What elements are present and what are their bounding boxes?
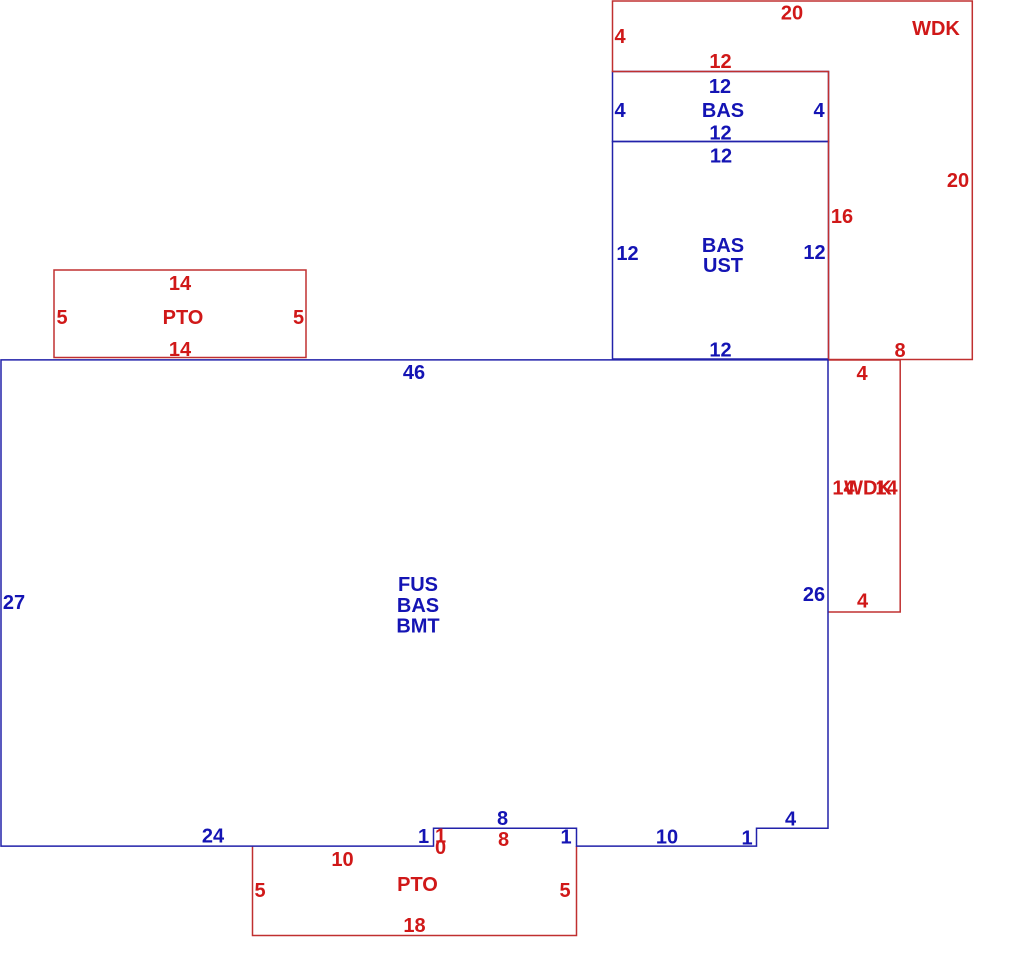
svg-text:0: 0 (435, 837, 446, 859)
svg-text:8: 8 (498, 829, 509, 851)
svg-text:1: 1 (741, 828, 752, 850)
svg-text:FUS: FUS (398, 574, 438, 596)
svg-text:8: 8 (894, 340, 905, 362)
svg-text:4: 4 (813, 100, 825, 122)
svg-text:18: 18 (403, 915, 425, 937)
svg-text:1: 1 (560, 827, 571, 849)
svg-text:PTO: PTO (163, 307, 204, 329)
svg-text:14: 14 (169, 273, 192, 295)
svg-text:14: 14 (875, 478, 898, 500)
svg-text:26: 26 (803, 584, 825, 606)
svg-text:PTO: PTO (397, 874, 438, 896)
svg-text:27: 27 (3, 592, 25, 614)
svg-text:8: 8 (497, 808, 508, 830)
svg-text:46: 46 (403, 362, 425, 384)
svg-text:12: 12 (803, 242, 825, 264)
svg-text:12: 12 (709, 51, 731, 73)
svg-text:12: 12 (709, 123, 731, 145)
svg-text:20: 20 (947, 170, 969, 192)
svg-text:24: 24 (202, 826, 225, 848)
svg-text:5: 5 (56, 307, 67, 329)
svg-text:1: 1 (418, 826, 429, 848)
svg-text:BAS: BAS (397, 595, 439, 617)
svg-text:UST: UST (703, 255, 743, 277)
svg-text:4: 4 (614, 26, 626, 48)
svg-text:14: 14 (169, 339, 192, 361)
svg-text:4: 4 (785, 809, 797, 831)
svg-text:BMT: BMT (396, 616, 439, 638)
svg-text:5: 5 (559, 880, 570, 902)
svg-text:BAS: BAS (702, 100, 744, 122)
svg-text:10: 10 (331, 849, 353, 871)
svg-text:WDK: WDK (912, 18, 960, 40)
svg-text:5: 5 (254, 880, 265, 902)
svg-text:4: 4 (856, 363, 868, 385)
svg-text:4: 4 (614, 100, 626, 122)
svg-text:12: 12 (710, 146, 732, 168)
svg-text:12: 12 (709, 340, 731, 362)
svg-text:16: 16 (831, 206, 853, 228)
svg-text:4: 4 (857, 591, 869, 613)
svg-text:5: 5 (293, 307, 304, 329)
svg-text:12: 12 (616, 243, 638, 265)
svg-text:20: 20 (781, 3, 803, 25)
svg-text:BAS: BAS (702, 235, 744, 257)
svg-text:10: 10 (656, 827, 678, 849)
svg-text:12: 12 (709, 76, 731, 98)
